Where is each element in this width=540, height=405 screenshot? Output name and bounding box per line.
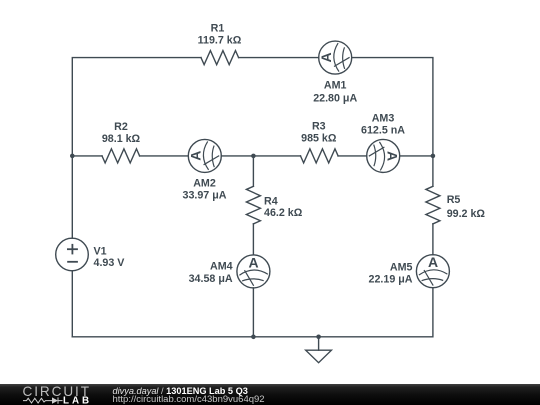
svg-text:33.97 μA: 33.97 μA xyxy=(183,189,227,201)
ammeter AM2 circle xyxy=(188,139,221,172)
wire AM5 to bottom right corner xyxy=(72,288,433,337)
meter glyph AM3 xyxy=(369,142,401,171)
svg-text:AM4: AM4 xyxy=(210,261,233,273)
svg-text:119.7 kΩ: 119.7 kΩ xyxy=(198,35,242,47)
resistor R2 xyxy=(102,149,140,163)
wire R5 to AM5 xyxy=(432,224,434,255)
svg-text:LAB: LAB xyxy=(63,396,92,405)
svg-text:R4: R4 xyxy=(264,196,278,208)
wire middle node down to R4 xyxy=(252,156,254,186)
resistor R4 xyxy=(246,186,260,224)
svg-text:4.93 V: 4.93 V xyxy=(94,257,126,269)
ammeter AM5 circle xyxy=(416,255,449,288)
wire AM1 to top right corner and down xyxy=(352,58,433,187)
node bottom / R4 branch xyxy=(251,335,256,340)
meter glyph AM4 xyxy=(239,254,268,286)
svg-text:22.19 μA: 22.19 μA xyxy=(369,274,413,286)
node right-middle xyxy=(431,154,436,159)
svg-text:AM5: AM5 xyxy=(390,262,413,274)
footer bar xyxy=(0,384,540,405)
svg-text:R3: R3 xyxy=(312,121,326,133)
ground triangle xyxy=(306,350,332,363)
wire AM4 to bottom rail xyxy=(252,288,254,337)
resistor R1 xyxy=(201,51,239,65)
svg-text:985 kΩ: 985 kΩ xyxy=(301,133,337,145)
wire R1 to AM1 xyxy=(239,57,319,59)
logo resistor-diode row xyxy=(23,397,63,403)
svg-text:A: A xyxy=(428,254,438,270)
svg-text:A: A xyxy=(188,151,204,161)
svg-text:AM1: AM1 xyxy=(324,80,347,92)
svg-text:22.80 μA: 22.80 μA xyxy=(313,92,357,104)
ammeter AM1 circle xyxy=(319,41,352,74)
wire R3 to AM3 xyxy=(338,155,367,157)
meter glyph AM2 xyxy=(188,141,220,170)
meter glyph AM5 xyxy=(419,254,448,286)
svg-text:A: A xyxy=(384,151,400,161)
svg-text:http://circuitlab.com/c43bn9vu: http://circuitlab.com/c43bn9vu64q92 xyxy=(113,394,265,405)
svg-text:AM3: AM3 xyxy=(372,112,395,124)
svg-text:A: A xyxy=(249,254,259,270)
wire middle rail left xyxy=(72,155,102,157)
ground stem xyxy=(318,337,320,350)
wire AM2 to R3 xyxy=(221,155,300,157)
voltage source V1 circle xyxy=(56,238,89,271)
wire AM3 to right rail xyxy=(400,155,433,157)
svg-text:A: A xyxy=(318,52,334,62)
svg-text:46.2 kΩ: 46.2 kΩ xyxy=(264,207,303,219)
node left-middle xyxy=(70,154,75,159)
wire R4 to AM4 xyxy=(252,224,254,255)
wire top left segment xyxy=(72,58,201,239)
svg-text:R2: R2 xyxy=(114,121,128,133)
meter glyph AM1 xyxy=(318,43,350,72)
svg-text:99.2 kΩ: 99.2 kΩ xyxy=(447,208,486,220)
resistor R5 xyxy=(426,186,440,224)
svg-text:34.58 μA: 34.58 μA xyxy=(189,273,233,285)
svg-text:612.5 nA: 612.5 nA xyxy=(361,125,405,137)
V1 minus sign xyxy=(67,261,78,263)
node ground xyxy=(316,335,321,340)
node middle rail / R4 xyxy=(251,154,256,159)
resistor R3 xyxy=(301,149,339,163)
ammeter AM3 circle xyxy=(367,139,400,172)
ammeter AM4 circle xyxy=(237,255,270,288)
svg-text:R5: R5 xyxy=(447,194,461,206)
wire R2 to AM2 xyxy=(140,155,189,157)
svg-text:98.1 kΩ: 98.1 kΩ xyxy=(102,133,141,145)
svg-text:R1: R1 xyxy=(211,23,225,35)
V1 plus sign xyxy=(67,244,78,262)
svg-text:AM2: AM2 xyxy=(193,178,216,190)
wire V1 bottom to bottom rail xyxy=(71,271,73,337)
